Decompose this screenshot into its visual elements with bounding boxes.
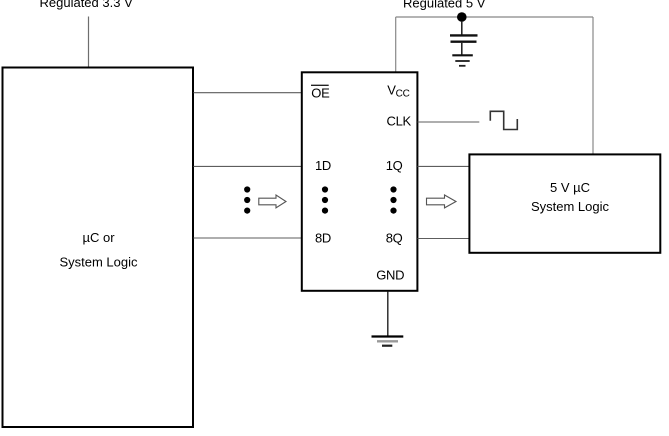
svg-text:8D: 8D <box>315 231 331 246</box>
node: 5V junction dot <box>457 12 467 22</box>
wire: CLK to clock source <box>418 121 480 123</box>
block: uC or System Logic <box>3 68 194 428</box>
svg-text:Regulated 5 V: Regulated 5 V <box>403 0 486 11</box>
svg-text:CLK: CLK <box>387 113 412 128</box>
wire: 1D from uC box to IC <box>194 165 302 167</box>
svg-text:Regulated 3.3 V: Regulated 3.3 V <box>40 0 134 10</box>
capacitor C1: decoupling cap on 5V rail <box>450 21 478 55</box>
wire: 1Q to 5V uC box <box>418 165 470 167</box>
pin label: OE (active low, overline) <box>311 85 330 100</box>
clock waveform symbol <box>490 111 517 129</box>
svg-text:1D: 1D <box>315 158 331 173</box>
node dots: internal ellipsis D side <box>322 186 328 213</box>
wire: 5V rail horizontal <box>396 16 593 18</box>
svg-text:µC or: µC or <box>82 230 115 245</box>
wire: 5V rail down to right box <box>592 17 594 154</box>
wire: 8D from uC box to IC <box>194 237 302 239</box>
svg-text:System Logic: System Logic <box>59 255 138 270</box>
wire: 8Q to 5V uC box <box>418 238 470 240</box>
ground: below capacitor <box>452 55 473 66</box>
svg-text:8Q: 8Q <box>386 231 403 246</box>
wire: OE from uC box to IC <box>194 92 302 94</box>
wire: GND pin down to ground <box>387 292 389 337</box>
IC U1: octal D-type latch/level translator <box>302 72 418 290</box>
svg-text:OE: OE <box>311 86 330 101</box>
wire: 3.3V supply down to uC box <box>88 17 90 68</box>
arrow: data flow into IC <box>259 195 286 208</box>
block: 5 V uC System Logic <box>469 154 660 252</box>
ground: IC GND <box>372 337 404 346</box>
svg-text:GND: GND <box>376 268 404 283</box>
svg-text:1Q: 1Q <box>386 158 403 173</box>
node dots: internal ellipsis Q side <box>390 186 396 213</box>
arrow: data flow out of IC <box>427 195 457 208</box>
svg-text:System Logic: System Logic <box>531 199 610 214</box>
node dots: data bus ellipsis left of IC <box>244 186 250 213</box>
svg-text:5 V µC: 5 V µC <box>550 180 590 195</box>
wire: VCC vertical from rail to IC top <box>395 17 397 72</box>
